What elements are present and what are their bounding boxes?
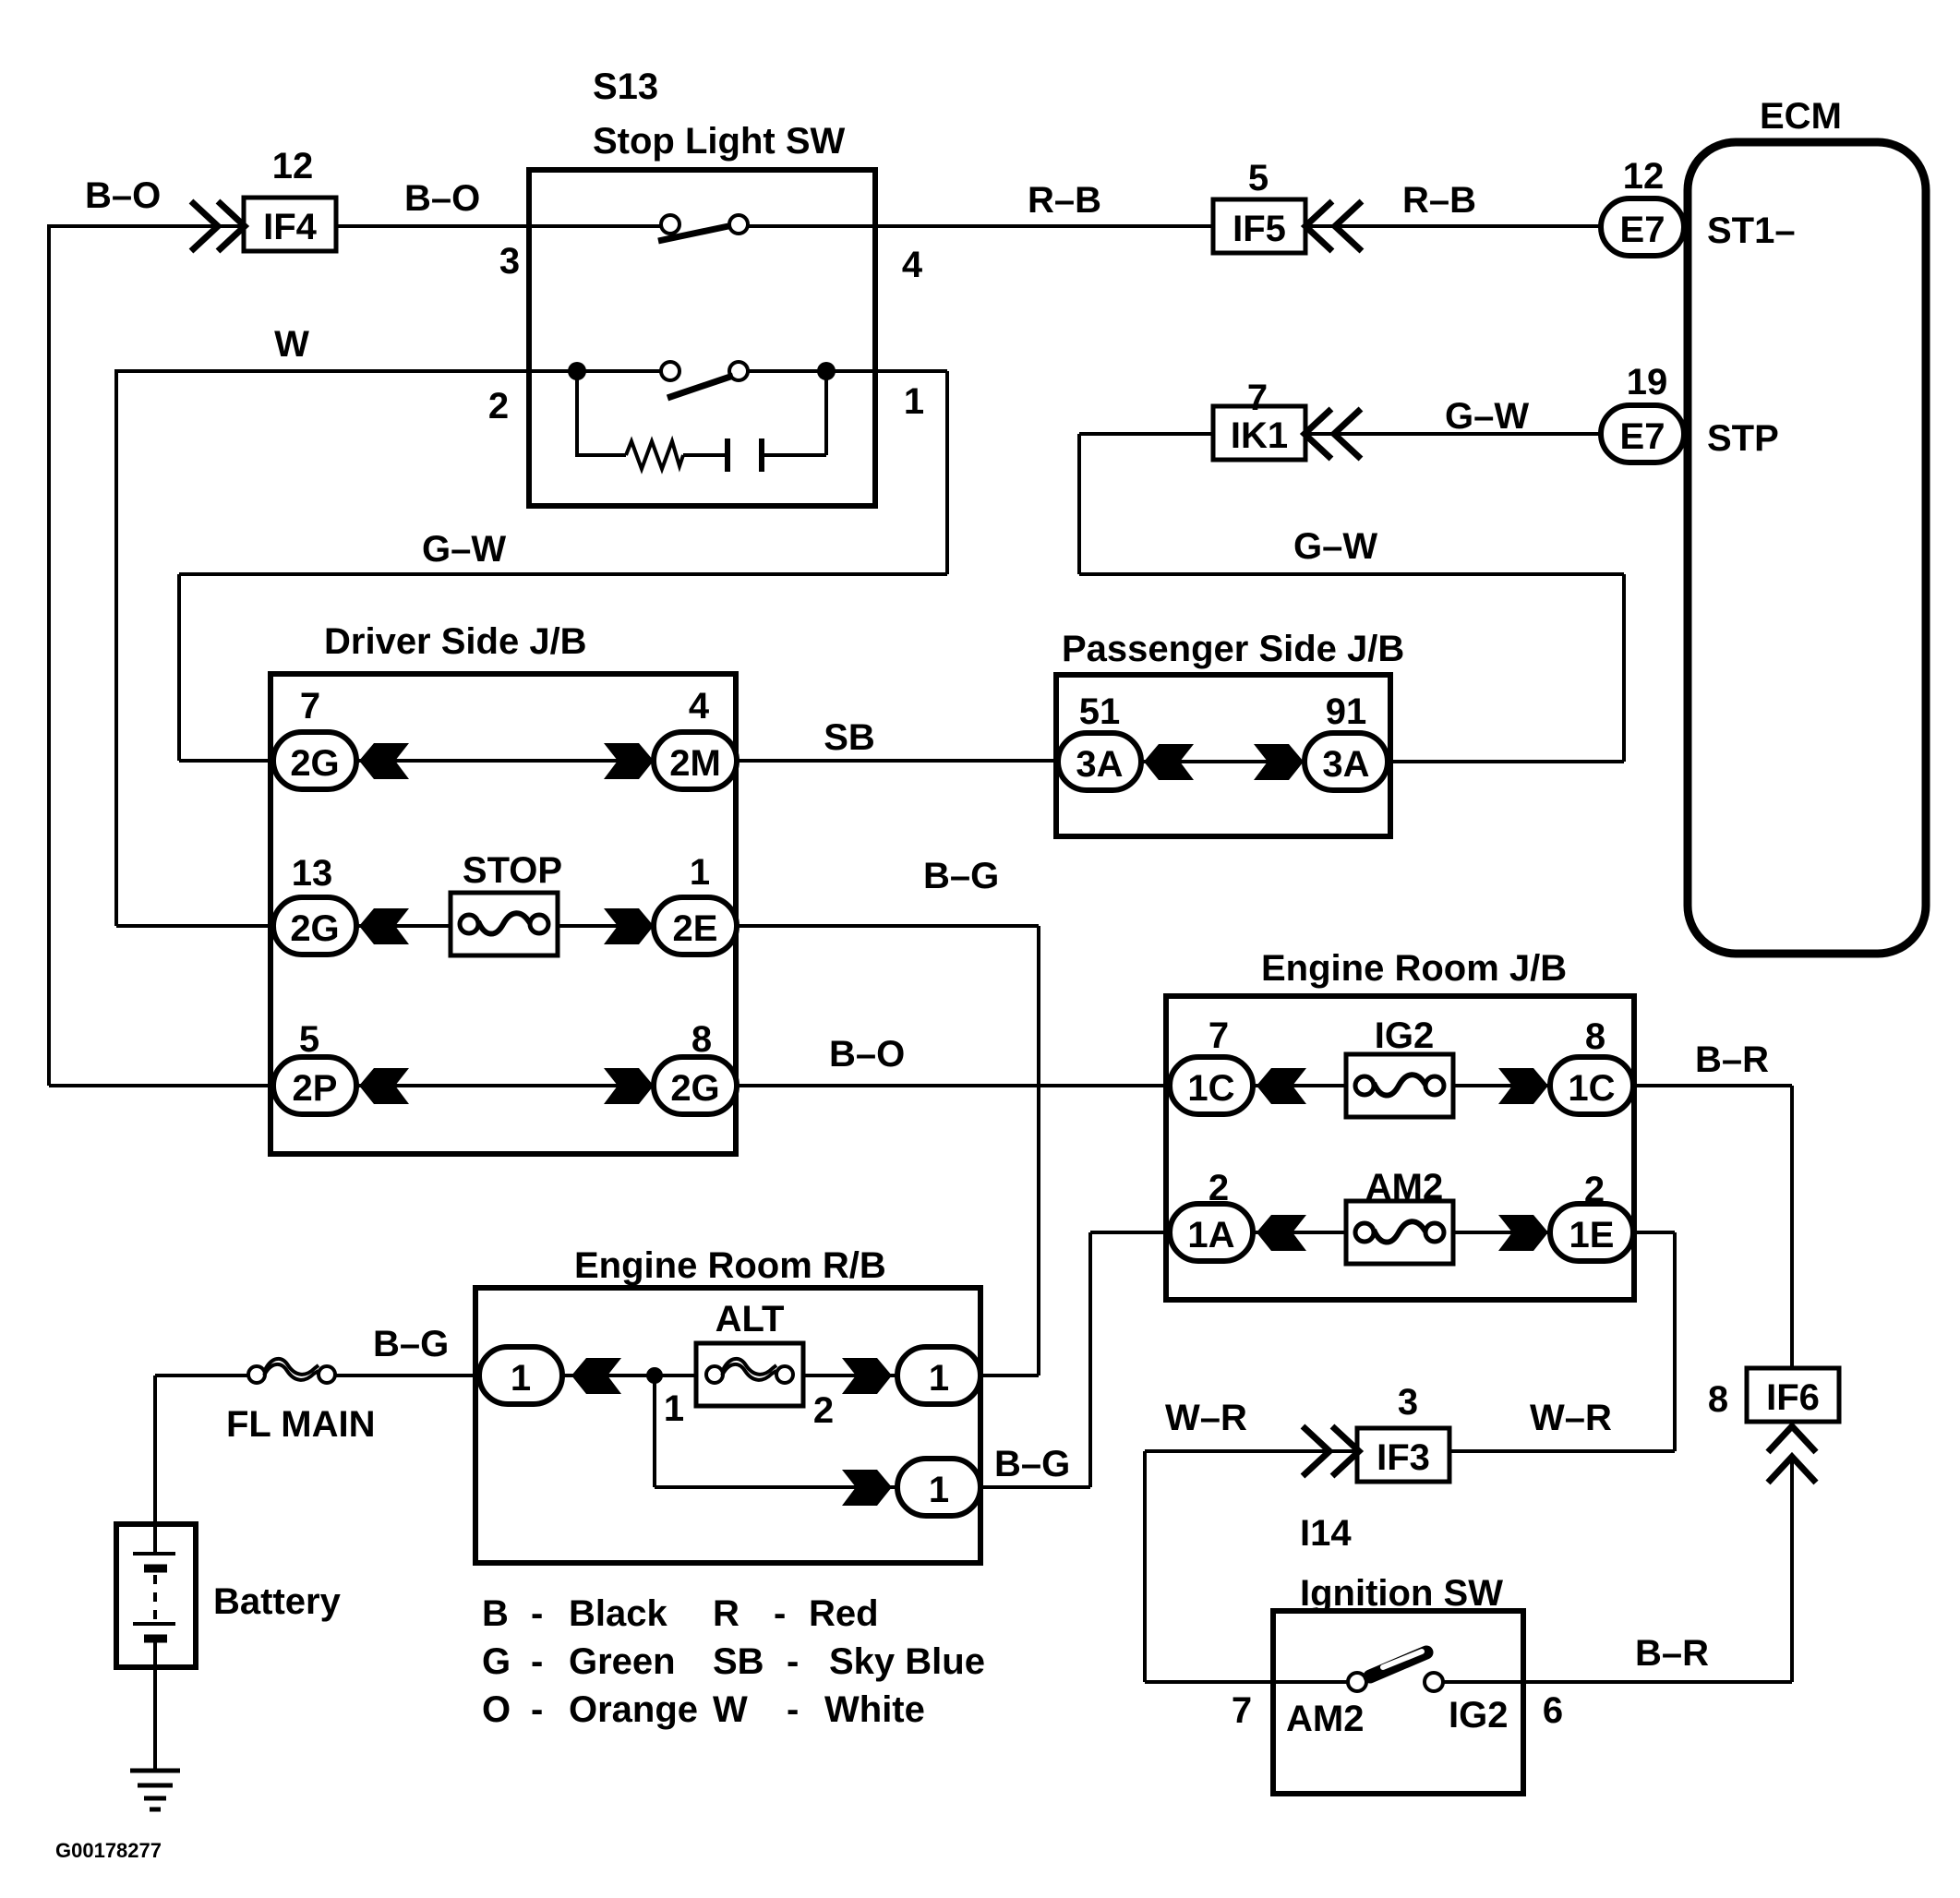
ECM box bbox=[1688, 142, 1926, 954]
svg-text:S13: S13 bbox=[593, 66, 658, 107]
arrow right row2 driver bbox=[604, 908, 654, 944]
svg-text:IG2: IG2 bbox=[1449, 1695, 1508, 1736]
svg-text:5: 5 bbox=[1248, 158, 1269, 198]
wire left vertical B-O x=53 bbox=[47, 224, 51, 1086]
wire W-R IF3 to corner x=1814 bbox=[1447, 1449, 1675, 1453]
wire B-G vertical x=1181 bbox=[1088, 1232, 1092, 1487]
svg-text:G: G bbox=[482, 1641, 511, 1682]
svg-text:R: R bbox=[713, 1593, 740, 1634]
battery dashed center bbox=[153, 1575, 157, 1619]
svg-text:ST1–: ST1– bbox=[1707, 210, 1796, 251]
svg-text:4: 4 bbox=[689, 686, 710, 727]
wire B-G corner into R/B bottom right oval bbox=[980, 1485, 1090, 1489]
wire passenger 3A(51) to 3A(91) bbox=[1141, 760, 1304, 763]
svg-text:6: 6 bbox=[1543, 1690, 1563, 1731]
wire engine J/B row1 1C to IG2 fuse bbox=[1254, 1084, 1346, 1087]
wire 1E(2) to corner bbox=[1634, 1231, 1675, 1234]
svg-text:7: 7 bbox=[1247, 378, 1268, 418]
chevrons into IF6 bbox=[1768, 1426, 1816, 1452]
arrow left row2 driver bbox=[359, 908, 409, 944]
junction dot row2 left bbox=[568, 362, 586, 380]
arrow right top engine R/B bbox=[842, 1358, 892, 1394]
wire G-W corner to IK1 bbox=[1079, 432, 1214, 436]
svg-text:G00178277: G00178277 bbox=[55, 1839, 162, 1862]
svg-text:2M: 2M bbox=[669, 743, 721, 784]
wire B-O from left edge to IF4 bbox=[49, 224, 245, 228]
svg-text:Stop Light SW: Stop Light SW bbox=[593, 121, 846, 162]
wire B-O into 2P(5) bbox=[49, 1084, 277, 1087]
wire G-W vertical x=194 bbox=[177, 574, 181, 761]
oval 1 left engine R/B bbox=[479, 1347, 562, 1404]
svg-text:R–B: R–B bbox=[1028, 180, 1101, 221]
svg-text:E7: E7 bbox=[1620, 210, 1665, 250]
svg-text:Ignition SW: Ignition SW bbox=[1300, 1573, 1503, 1614]
svg-text:-: - bbox=[787, 1689, 799, 1730]
svg-text:W: W bbox=[274, 324, 309, 365]
svg-text:SB: SB bbox=[713, 1641, 764, 1682]
svg-text:Engine Room J/B: Engine Room J/B bbox=[1261, 948, 1567, 989]
oval 3A pin91 passenger bbox=[1305, 733, 1388, 790]
wire battery bottom to ground bbox=[153, 1638, 157, 1771]
wire driver row2 2G(13) to STOP fuse bbox=[356, 924, 451, 928]
svg-text:ECM: ECM bbox=[1760, 96, 1842, 137]
Ignition SW box I14 bbox=[1273, 1611, 1523, 1794]
wire B-G FL MAIN to R/B oval 1 bbox=[335, 1374, 483, 1377]
arrow right row1 engine J/B bbox=[1498, 1068, 1548, 1104]
oval 2P pin5 driver bbox=[273, 1057, 356, 1114]
chevrons into IF4 bbox=[191, 201, 218, 251]
wire engine J/B row2 1A to AM2 fuse bbox=[1254, 1231, 1346, 1234]
Engine Room J/B box bbox=[1166, 996, 1634, 1300]
arrow left passenger bbox=[1144, 744, 1194, 780]
svg-text:Black: Black bbox=[569, 1593, 667, 1634]
svg-text:Orange: Orange bbox=[569, 1689, 698, 1730]
svg-text:B–O: B–O bbox=[829, 1034, 905, 1075]
wire W-R vertical x=1814 bbox=[1673, 1232, 1677, 1451]
fusible link ALT engine R/B bbox=[696, 1343, 803, 1406]
wire B-R below IF6 chevrons down bbox=[1790, 1457, 1794, 1682]
wire B-G 2E(1) to corner x=1125 bbox=[737, 924, 1039, 928]
connector IF4 bbox=[244, 198, 336, 251]
chevrons into IF5 bbox=[1305, 201, 1332, 251]
svg-text:B–R: B–R bbox=[1635, 1633, 1709, 1674]
svg-text:E7: E7 bbox=[1620, 416, 1665, 457]
arrow right bottom engine R/B bbox=[842, 1470, 892, 1506]
junction dot row2 right bbox=[817, 362, 836, 380]
svg-text:B–O: B–O bbox=[404, 178, 480, 219]
svg-text:Green: Green bbox=[569, 1641, 676, 1682]
svg-text:O: O bbox=[482, 1689, 511, 1730]
svg-text:1C: 1C bbox=[1568, 1068, 1615, 1109]
svg-text:2G: 2G bbox=[290, 743, 339, 784]
wire G-W 3A(91) to corner bbox=[1388, 760, 1624, 763]
svg-text:3: 3 bbox=[499, 241, 520, 282]
wire driver row3 2P(5) to 2G(8) bbox=[356, 1084, 654, 1087]
wire W from x=126 to stop SW pin 2 bbox=[116, 369, 577, 373]
svg-text:AM2: AM2 bbox=[1286, 1699, 1364, 1739]
resistor inside S13 bbox=[626, 441, 683, 469]
svg-text:5: 5 bbox=[299, 1019, 319, 1060]
svg-text:IF5: IF5 bbox=[1233, 209, 1286, 249]
svg-text:R–B: R–B bbox=[1402, 180, 1476, 221]
svg-text:2G: 2G bbox=[670, 1068, 719, 1109]
svg-text:1: 1 bbox=[690, 852, 710, 893]
wire R/B row1 oval to ALT fuse and right oval bbox=[562, 1374, 897, 1377]
wire G-W pin1 vertical x=1026 bbox=[945, 371, 949, 574]
svg-text:51: 51 bbox=[1079, 691, 1121, 732]
arrow left row2 engine J/B bbox=[1257, 1215, 1306, 1251]
svg-text:Engine Room R/B: Engine Room R/B bbox=[574, 1245, 886, 1286]
svg-text:1A: 1A bbox=[1187, 1215, 1234, 1255]
wire engine J/B row2 AM2 fuse to 1E(2) bbox=[1453, 1231, 1549, 1234]
arrow right row3 driver bbox=[604, 1068, 654, 1104]
oval E7 pin19 ECM bbox=[1601, 405, 1684, 462]
svg-text:W: W bbox=[713, 1689, 748, 1730]
oval 1 top right engine R/B bbox=[897, 1347, 980, 1404]
svg-text:2: 2 bbox=[1584, 1170, 1605, 1210]
svg-text:1: 1 bbox=[929, 1470, 949, 1510]
wire ignition SW IG2 contact to box edge bbox=[1443, 1680, 1523, 1684]
fuse STOP driver J/B bbox=[451, 893, 558, 955]
svg-text:I14: I14 bbox=[1300, 1513, 1352, 1554]
Passenger Side J/B box bbox=[1056, 675, 1390, 836]
svg-text:19: 19 bbox=[1627, 362, 1668, 402]
svg-text:B: B bbox=[482, 1593, 509, 1634]
switch S13 row1 lever bbox=[658, 226, 728, 241]
arrow right row1 driver bbox=[604, 743, 654, 779]
wire W vertical x=126 bbox=[114, 369, 118, 926]
Stop Light SW box S13 bbox=[529, 170, 875, 506]
svg-text:G–W: G–W bbox=[1293, 526, 1377, 567]
arrow right row2 engine J/B bbox=[1498, 1215, 1548, 1251]
oval 2M pin4 driver bbox=[654, 732, 737, 789]
wire from stop switch to pin 4 and IF5 (R-B) bbox=[748, 224, 1213, 228]
svg-text:7: 7 bbox=[300, 686, 320, 727]
svg-text:8: 8 bbox=[1585, 1016, 1605, 1057]
svg-text:B–R: B–R bbox=[1695, 1039, 1769, 1080]
svg-text:IK1: IK1 bbox=[1231, 415, 1288, 456]
wire SB 2M(4) to 3A(51) bbox=[737, 759, 1062, 763]
svg-text:1C: 1C bbox=[1187, 1068, 1234, 1109]
Engine Room R/B box bbox=[475, 1288, 980, 1563]
svg-text:-: - bbox=[531, 1593, 543, 1634]
oval 2G pin8 driver bbox=[654, 1057, 737, 1114]
junction dot engine R/B bbox=[646, 1367, 663, 1384]
wire G-W vertical x=1169 bbox=[1077, 434, 1081, 574]
svg-text:12: 12 bbox=[1623, 156, 1665, 197]
capacitor inside S13 bbox=[727, 438, 762, 472]
svg-text:1: 1 bbox=[929, 1358, 949, 1399]
wire stop SW row2 right contact to pin1 bbox=[748, 369, 947, 373]
wire W into 2G(13) bbox=[116, 924, 277, 928]
svg-text:IF6: IF6 bbox=[1766, 1377, 1820, 1418]
wire B-O 2G(8) to 1C(7) bbox=[737, 1084, 1172, 1087]
svg-text:-: - bbox=[774, 1593, 786, 1634]
svg-text:SB: SB bbox=[824, 717, 875, 758]
svg-text:White: White bbox=[824, 1689, 925, 1730]
connector IF5 bbox=[1213, 199, 1305, 253]
svg-text:1E: 1E bbox=[1569, 1215, 1615, 1255]
connector IK1 bbox=[1213, 406, 1305, 460]
switch S13 row1 contact circles bbox=[661, 215, 679, 234]
svg-text:W–R: W–R bbox=[1165, 1398, 1247, 1438]
wire B-R 1C(8) to corner bbox=[1634, 1084, 1792, 1087]
wire engine J/B row1 IG2 fuse to 1C(8) bbox=[1453, 1084, 1548, 1087]
svg-text:B–G: B–G bbox=[923, 856, 999, 896]
wire ignition SW AM2 contact to box edge bbox=[1273, 1680, 1348, 1684]
wire driver row1 2G(7) to 2M(4) bbox=[356, 759, 654, 763]
svg-text:FL MAIN: FL MAIN bbox=[226, 1404, 375, 1445]
wire B-G corner into R/B top right oval bbox=[980, 1374, 1039, 1377]
wire G-W into 2G(7) bbox=[179, 759, 277, 763]
oval 1C pin7 engine J/B bbox=[1170, 1057, 1253, 1114]
arrow left row3 driver bbox=[359, 1068, 409, 1104]
wire battery to FL MAIN bbox=[155, 1374, 248, 1377]
svg-text:STP: STP bbox=[1707, 418, 1779, 459]
Driver Side J/B box bbox=[271, 674, 736, 1154]
svg-text:12: 12 bbox=[272, 146, 314, 186]
battery box bbox=[116, 1524, 196, 1667]
svg-text:IG2: IG2 bbox=[1375, 1015, 1434, 1056]
oval 3A pin51 passenger bbox=[1058, 733, 1141, 790]
oval 2G pin7 driver bbox=[273, 732, 356, 789]
wire R-B from IF5 to ECM pin E7(12) bbox=[1305, 224, 1600, 228]
svg-text:Passenger Side J/B: Passenger Side J/B bbox=[1062, 629, 1404, 669]
svg-text:8: 8 bbox=[1708, 1379, 1728, 1420]
svg-text:2G: 2G bbox=[290, 908, 339, 949]
wire to resistor branch bbox=[577, 371, 826, 455]
svg-text:IF3: IF3 bbox=[1377, 1437, 1430, 1478]
chevrons into IK1 bbox=[1305, 409, 1331, 459]
svg-text:ALT: ALT bbox=[715, 1299, 785, 1339]
oval 2E pin1 driver bbox=[654, 897, 737, 955]
connector IF3 bbox=[1357, 1428, 1449, 1482]
switch S13 row2 contact circles bbox=[661, 362, 679, 380]
svg-text:8: 8 bbox=[691, 1019, 712, 1060]
svg-text:B–O: B–O bbox=[85, 175, 161, 216]
connector IF6 bbox=[1747, 1368, 1839, 1422]
wire G-W vertical x=1759 bbox=[1622, 574, 1626, 762]
wire G-W horizontal y=622 right bbox=[1079, 572, 1624, 576]
oval E7 pin12 ECM bbox=[1601, 198, 1684, 256]
wire G-W horizontal y=622 bbox=[179, 572, 947, 576]
wire stop SW row2 left dot to left contact bbox=[577, 369, 661, 373]
svg-text:-: - bbox=[787, 1641, 799, 1682]
arrow left row1 engine J/B bbox=[1257, 1068, 1306, 1104]
svg-text:Red: Red bbox=[809, 1593, 879, 1634]
arrow left row1 driver bbox=[359, 743, 409, 779]
oval 1A pin2 engine J/B bbox=[1170, 1204, 1253, 1261]
svg-text:STOP: STOP bbox=[463, 850, 562, 891]
wire B-G 1A(2) to vertical x=1181 bbox=[1090, 1231, 1172, 1234]
svg-text:Battery: Battery bbox=[213, 1581, 342, 1622]
wire B-O from IF4 to Stop Light SW pin 3 and switch contact bbox=[336, 224, 661, 228]
ground symbol bbox=[130, 1769, 180, 1773]
wire B-G vertical x=1125 bbox=[1037, 926, 1040, 1375]
oval 1E pin2 engine J/B bbox=[1550, 1204, 1633, 1261]
fusible link FL MAIN bbox=[248, 1359, 335, 1383]
svg-text:3A: 3A bbox=[1076, 744, 1123, 785]
ignition SW contact circles bbox=[1348, 1673, 1366, 1691]
arrow right passenger bbox=[1254, 744, 1304, 780]
svg-text:2E: 2E bbox=[673, 908, 718, 949]
svg-text:1: 1 bbox=[904, 381, 924, 422]
oval 2G pin13 driver bbox=[273, 897, 356, 955]
svg-text:IF4: IF4 bbox=[263, 207, 318, 247]
svg-text:3: 3 bbox=[1398, 1382, 1418, 1423]
svg-text:-: - bbox=[531, 1641, 543, 1682]
svg-text:B–G: B–G bbox=[994, 1444, 1070, 1484]
svg-text:7: 7 bbox=[1208, 1015, 1229, 1056]
svg-text:1: 1 bbox=[664, 1388, 684, 1429]
svg-text:2P: 2P bbox=[293, 1068, 338, 1109]
svg-text:B–G: B–G bbox=[373, 1324, 449, 1364]
oval 1 bottom right engine R/B bbox=[897, 1459, 980, 1516]
svg-text:AM2: AM2 bbox=[1365, 1167, 1443, 1207]
wire B-R to ignition SW IG2 bbox=[1523, 1680, 1792, 1684]
svg-text:2: 2 bbox=[813, 1390, 834, 1431]
svg-text:7: 7 bbox=[1232, 1690, 1252, 1731]
wire W-R corner to IF3 bbox=[1145, 1449, 1359, 1453]
fuse IG2 engine J/B bbox=[1346, 1054, 1453, 1117]
wire battery top vertical x=168 bbox=[153, 1375, 157, 1554]
svg-text:G–W: G–W bbox=[422, 529, 506, 570]
wire driver row2 STOP fuse to 2E(1) bbox=[558, 924, 654, 928]
svg-text:2: 2 bbox=[488, 386, 509, 426]
svg-text:Sky Blue: Sky Blue bbox=[829, 1641, 985, 1682]
fuse AM2 engine J/B bbox=[1346, 1201, 1453, 1264]
switch S13 row2 lever bbox=[667, 376, 733, 398]
svg-text:13: 13 bbox=[292, 853, 333, 894]
svg-text:91: 91 bbox=[1326, 691, 1367, 732]
svg-text:1: 1 bbox=[511, 1358, 531, 1399]
wire G-W IK1 to ECM pin E7(19) bbox=[1305, 432, 1600, 436]
wire W-R vertical x=1240 bbox=[1143, 1451, 1147, 1682]
oval 1C pin8 engine J/B bbox=[1550, 1057, 1633, 1114]
wire R/B bottom row to bottom right oval bbox=[655, 1485, 897, 1489]
wire R/B junction vertical x=709 bbox=[653, 1375, 656, 1487]
battery plates bbox=[133, 1552, 175, 1556]
wire B-R vertical x=1941 to IF6 bbox=[1790, 1086, 1794, 1370]
svg-text:-: - bbox=[531, 1689, 543, 1730]
svg-text:W–R: W–R bbox=[1530, 1398, 1612, 1438]
svg-text:2: 2 bbox=[1208, 1168, 1229, 1208]
chevrons into IF3 bbox=[1303, 1426, 1329, 1476]
wire W-R ignition to vertical x=1240 bbox=[1145, 1680, 1273, 1684]
svg-text:3A: 3A bbox=[1322, 744, 1369, 785]
svg-text:Driver Side J/B: Driver Side J/B bbox=[324, 621, 587, 662]
arrow left engine R/B bbox=[571, 1358, 621, 1394]
svg-text:G–W: G–W bbox=[1445, 396, 1529, 437]
ignition SW lever bbox=[1370, 1652, 1426, 1676]
svg-text:4: 4 bbox=[902, 245, 923, 285]
